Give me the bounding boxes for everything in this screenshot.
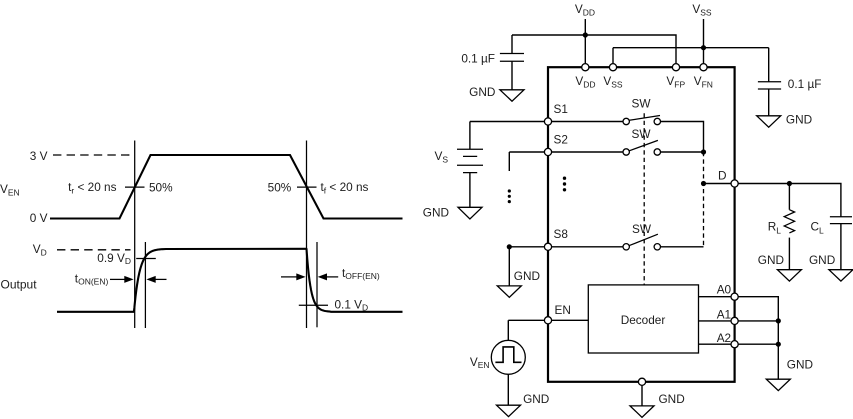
svg-text:S1: S1 bbox=[554, 102, 568, 116]
svg-text:GND: GND bbox=[787, 357, 813, 371]
svg-text:GND: GND bbox=[758, 253, 784, 267]
svg-text:EN: EN bbox=[555, 303, 571, 317]
svg-text:Decoder: Decoder bbox=[621, 313, 666, 327]
svg-text:3 V: 3 V bbox=[30, 149, 48, 163]
svg-text:0.1 µF: 0.1 µF bbox=[461, 51, 495, 65]
svg-text:S2: S2 bbox=[554, 133, 568, 147]
svg-text:0.1 µF: 0.1 µF bbox=[788, 77, 822, 91]
svg-text:VDD: VDD bbox=[575, 74, 595, 90]
svg-text:SW: SW bbox=[631, 96, 651, 110]
svg-text:GND: GND bbox=[469, 85, 495, 99]
svg-text:A2: A2 bbox=[717, 331, 731, 345]
svg-text:GND: GND bbox=[786, 112, 812, 126]
svg-text:tON(EN): tON(EN) bbox=[75, 271, 109, 286]
svg-text:A0: A0 bbox=[717, 282, 732, 296]
svg-text:50%: 50% bbox=[268, 180, 292, 194]
svg-text:tf < 20 ns: tf < 20 ns bbox=[321, 180, 369, 195]
svg-text:tOFF(EN): tOFF(EN) bbox=[342, 266, 380, 281]
svg-text:VFN: VFN bbox=[694, 74, 713, 90]
svg-text:0 V: 0 V bbox=[30, 211, 48, 225]
svg-text:50%: 50% bbox=[149, 180, 173, 194]
svg-text:VSS: VSS bbox=[603, 74, 623, 90]
svg-text:D: D bbox=[718, 168, 727, 182]
svg-text:GND: GND bbox=[809, 253, 835, 267]
svg-text:Output: Output bbox=[1, 277, 38, 291]
svg-text:GND: GND bbox=[523, 392, 549, 406]
svg-text:VEN: VEN bbox=[0, 182, 20, 197]
svg-text:A1: A1 bbox=[717, 307, 731, 321]
svg-text:GND: GND bbox=[423, 205, 449, 219]
svg-text:VFP: VFP bbox=[666, 74, 685, 90]
svg-text:CL: CL bbox=[811, 220, 825, 236]
svg-text:GND: GND bbox=[659, 392, 685, 406]
svg-text:RL: RL bbox=[768, 220, 782, 236]
svg-text:SW: SW bbox=[631, 127, 651, 141]
svg-text:tr < 20 ns: tr < 20 ns bbox=[68, 180, 117, 195]
svg-text:VD: VD bbox=[33, 242, 47, 257]
svg-text:GND: GND bbox=[514, 269, 540, 283]
svg-text:VEN: VEN bbox=[470, 355, 490, 370]
svg-text:VSS: VSS bbox=[692, 2, 712, 18]
svg-text:VDD: VDD bbox=[575, 2, 595, 18]
svg-text:VS: VS bbox=[434, 149, 448, 165]
svg-text:S8: S8 bbox=[554, 227, 569, 241]
svg-text:0.9 VD: 0.9 VD bbox=[97, 251, 131, 266]
svg-text:SW: SW bbox=[632, 222, 652, 236]
svg-text:0.1 VD: 0.1 VD bbox=[335, 297, 369, 312]
